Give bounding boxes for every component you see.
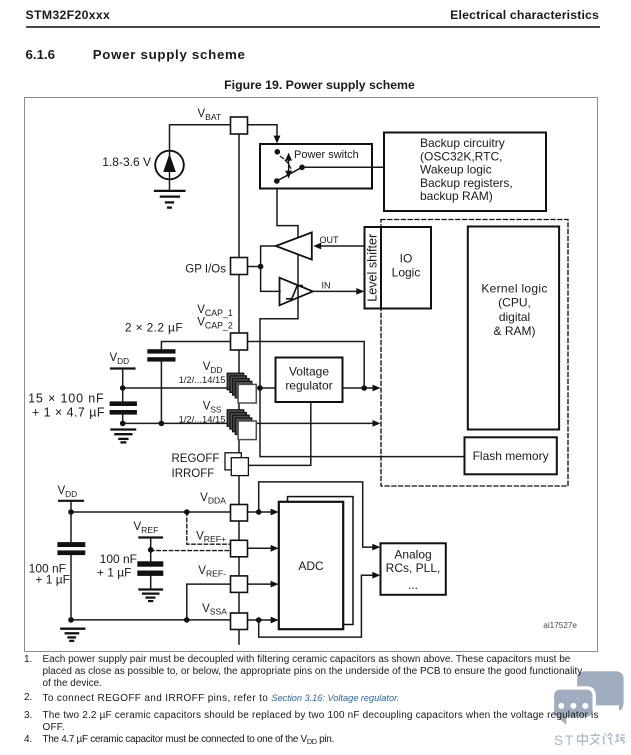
wire VREF- pin to ADC — [248, 583, 272, 585]
power switch box — [260, 144, 372, 189]
wire VBAT rail (main pin rail) — [238, 125, 240, 644]
node VDDA supply junction — [68, 509, 74, 515]
capacitor 2x2.2uF — [147, 349, 175, 353]
svg-text:VREF+: VREF+ — [196, 530, 226, 544]
ground under battery source — [155, 190, 184, 192]
wire VSSA pin to ADC — [248, 619, 272, 621]
svg-text:Flash memory: Flash memory — [473, 449, 549, 463]
power switch arrow down — [285, 171, 292, 179]
svg-text:VCAP_2: VCAP_2 — [197, 317, 233, 331]
dashed wire VDDA to VREF+ — [187, 512, 230, 544]
capacitor 15x100nF + 4.7uF — [110, 401, 137, 406]
capacitor 100nF + 1uF analog — [57, 542, 85, 547]
voltage regulator box — [276, 358, 343, 403]
power switch arrow up — [285, 153, 292, 161]
svg-text:(OSC32K,RTC,: (OSC32K,RTC, — [420, 149, 502, 163]
svg-text:Kernel logic: Kernel logic — [481, 281, 547, 295]
svg-text:VDD: VDD — [58, 485, 78, 499]
wire VDDA supply line — [71, 502, 231, 543]
ADC back box — [288, 497, 354, 625]
node VSSA ground junction — [68, 617, 74, 623]
wire 100nF 1uF cap to VSSA line — [70, 555, 72, 620]
FIGURE CAPTION — [4, 78, 631, 92]
pin VSSA — [231, 613, 248, 630]
wire VBAT source to pin — [170, 125, 231, 151]
wire REGOFF to regulator bottom — [248, 402, 310, 465]
wire VREF cap to ground — [150, 576, 152, 589]
kernel logic box — [468, 227, 559, 430]
node 2.2uF to VSS junction — [159, 421, 165, 427]
wire VCAP pin to 2.2uF capacitors — [161, 342, 230, 350]
pin VCAP — [231, 333, 248, 350]
wire VREF symbol down to cap — [150, 539, 152, 561]
wire IN to level shifter — [313, 290, 357, 292]
node regulator output VCAP junction — [361, 385, 367, 391]
arrow into power switch — [274, 136, 281, 144]
SECTION HEADING — [26, 47, 56, 62]
wire source to ground — [169, 179, 171, 190]
level shifter box — [365, 227, 382, 309]
svg-text:VDDA: VDDA — [200, 492, 226, 506]
svg-text:VREF: VREF — [134, 521, 159, 535]
node VDD cap junction — [120, 385, 126, 391]
svg-text:VREF-: VREF- — [198, 565, 226, 579]
arrowhead VSS into kernel domain — [373, 420, 381, 427]
power switch common contact — [299, 165, 305, 171]
node VDDA to VREF+ dashed junction — [184, 509, 190, 515]
ADC front box — [279, 502, 343, 629]
svg-text:100 nF: 100 nF — [100, 552, 137, 566]
svg-text:Logic: Logic — [392, 266, 421, 280]
power switch top contact — [275, 149, 281, 155]
wire power switch bottom through buffers down to flash memory — [260, 189, 465, 457]
svg-text:(CPU,: (CPU, — [498, 296, 531, 310]
wire 100nF cap to ground — [122, 414, 124, 424]
schmitt symbol — [287, 286, 302, 299]
arrowhead OUT into output buffer — [313, 243, 321, 250]
wire OUT from level shifter — [321, 245, 365, 247]
battery source arrow — [163, 154, 176, 173]
wire 2.2uF cap down to VSS line — [160, 361, 162, 423]
svg-text:+ 1 × 4.7 µF: + 1 × 4.7 µF — [32, 405, 105, 419]
ground VREF — [139, 588, 162, 590]
svg-text:Power switch: Power switch — [294, 149, 359, 161]
svg-text:Backup circuitry: Backup circuitry — [420, 136, 505, 150]
dashed kernel supply domain box — [381, 220, 568, 487]
svg-text:IRROFF: IRROFF — [172, 468, 215, 480]
VDD supply symbol analog — [59, 500, 83, 502]
pin VBAT — [231, 117, 248, 134]
arrowhead VREF- into ADC — [271, 581, 279, 588]
svg-text:Wakeup logic: Wakeup logic — [420, 163, 492, 177]
node VSS ground junction — [120, 421, 126, 427]
arrowhead VSSA into ADC — [271, 617, 279, 624]
svg-text:ADC: ADC — [298, 559, 324, 573]
wire VSSA line — [71, 619, 231, 621]
svg-text:OUT: OUT — [320, 235, 340, 245]
flash memory box — [465, 437, 557, 474]
node VSSA analog loop junction — [256, 617, 262, 623]
svg-text:IO: IO — [400, 252, 413, 266]
svg-text:regulator: regulator — [285, 379, 332, 393]
svg-text:VSSA: VSSA — [202, 603, 227, 617]
power switch selector double arrow — [288, 157, 290, 174]
capacitor 100nF + 1uF VREF — [137, 561, 163, 566]
battery source 1.8-3.6 V circle — [155, 151, 184, 180]
svg-text:+ 1 µF: + 1 µF — [97, 565, 132, 579]
arrowhead VREF+ into ADC — [271, 545, 279, 552]
wire power switch output to backup circuitry — [302, 166, 384, 168]
arrowhead regulator output into kernel domain — [373, 385, 381, 392]
wire VDD supply rail to regulator — [123, 387, 276, 389]
wire VREF- pin to VSSA — [187, 584, 231, 620]
pin stack VDD 1/2...14/15 — [227, 373, 244, 390]
arrowhead IN into level shifter — [356, 288, 364, 295]
wire VBAT pin to power switch — [248, 125, 278, 138]
svg-text:ai17527e: ai17527e — [543, 621, 577, 630]
svg-text:backup RAM): backup RAM) — [420, 189, 493, 203]
wire VREF+ pin to ADC — [248, 547, 272, 549]
wire regulator output to kernel domain — [343, 387, 374, 389]
svg-text:VDD: VDD — [203, 361, 223, 375]
svg-text:1/2/...14/15: 1/2/...14/15 — [179, 374, 226, 385]
svg-text:& RAM): & RAM) — [494, 324, 536, 338]
wire GP I/Os pin to buffers — [248, 246, 281, 291]
power switch dashed arc — [281, 157, 292, 171]
wire VDD symbol down — [122, 370, 124, 402]
svg-text:digital: digital — [499, 310, 530, 324]
svg-text:15 × 100 nF: 15 × 100 nF — [28, 392, 104, 406]
HEADER — [26, 8, 111, 22]
pin stack VSS 1/2...14/15 — [227, 410, 244, 427]
arrowhead VDDA into ADC — [271, 509, 279, 516]
wire VSS line to kernel domain — [123, 422, 373, 424]
svg-text:Voltage: Voltage — [289, 365, 329, 379]
power switch bottom contact — [274, 178, 280, 184]
svg-text:Backup registers,: Backup registers, — [420, 176, 513, 190]
dashed wire VREF to VREF+ — [151, 550, 230, 552]
pin REGOFF IRROFF stacked — [225, 453, 241, 470]
VDD supply symbol — [111, 367, 135, 369]
pin VREF- — [231, 576, 248, 593]
power switch lever — [277, 167, 302, 181]
arrowhead analog supply into Analog block — [372, 544, 380, 551]
analog RCs PLL box — [381, 543, 446, 595]
svg-text:+ 1 µF: + 1 µF — [35, 572, 70, 586]
FOOTNOTES — [0, 0, 1, 1]
svg-text:...: ... — [408, 578, 418, 592]
ground bottom left — [61, 628, 84, 630]
FIGURE FRAME — [24, 97, 598, 652]
arrowhead analog ground into Analog block — [372, 572, 380, 579]
pin VDDA — [231, 505, 248, 522]
output buffer triangle — [276, 232, 312, 259]
VREF supply symbol — [139, 536, 162, 538]
ground mid left — [112, 428, 136, 430]
wire VCAP pin to regulator output node — [248, 342, 365, 389]
pin VREF+ — [231, 540, 248, 557]
IO logic box — [381, 227, 431, 309]
node GP I/Os junction — [258, 264, 264, 270]
node VDDA analog loop junction — [256, 509, 262, 515]
backup circuitry box — [384, 133, 546, 212]
svg-text:Level shifter: Level shifter — [366, 234, 380, 302]
wire analog loop bottom to Analog block — [259, 575, 373, 637]
svg-text:2 × 2.2 µF: 2 × 2.2 µF — [125, 321, 183, 335]
node VREF junction — [148, 547, 154, 553]
svg-text:GP I/Os: GP I/Os — [185, 263, 226, 275]
svg-text:REGOFF: REGOFF — [172, 453, 220, 465]
svg-text:1/2/...14/15: 1/2/...14/15 — [179, 413, 226, 424]
svg-text:VBAT: VBAT — [198, 108, 222, 122]
wire VDDA pin to ADC — [248, 511, 272, 513]
node VREF- VSSA junction — [184, 617, 190, 623]
svg-text:IN: IN — [322, 281, 331, 291]
svg-text:VDD: VDD — [110, 352, 130, 366]
svg-text:1.8-3.6 V: 1.8-3.6 V — [102, 155, 151, 169]
svg-text:Analog: Analog — [394, 548, 431, 562]
wire analog loop top to Analog block — [259, 482, 373, 547]
pin GP I/Os — [231, 258, 248, 275]
schmitt trigger input buffer — [280, 278, 313, 306]
svg-text:RCs, PLL,: RCs, PLL, — [386, 561, 441, 575]
node VDD flash junction — [257, 385, 263, 391]
